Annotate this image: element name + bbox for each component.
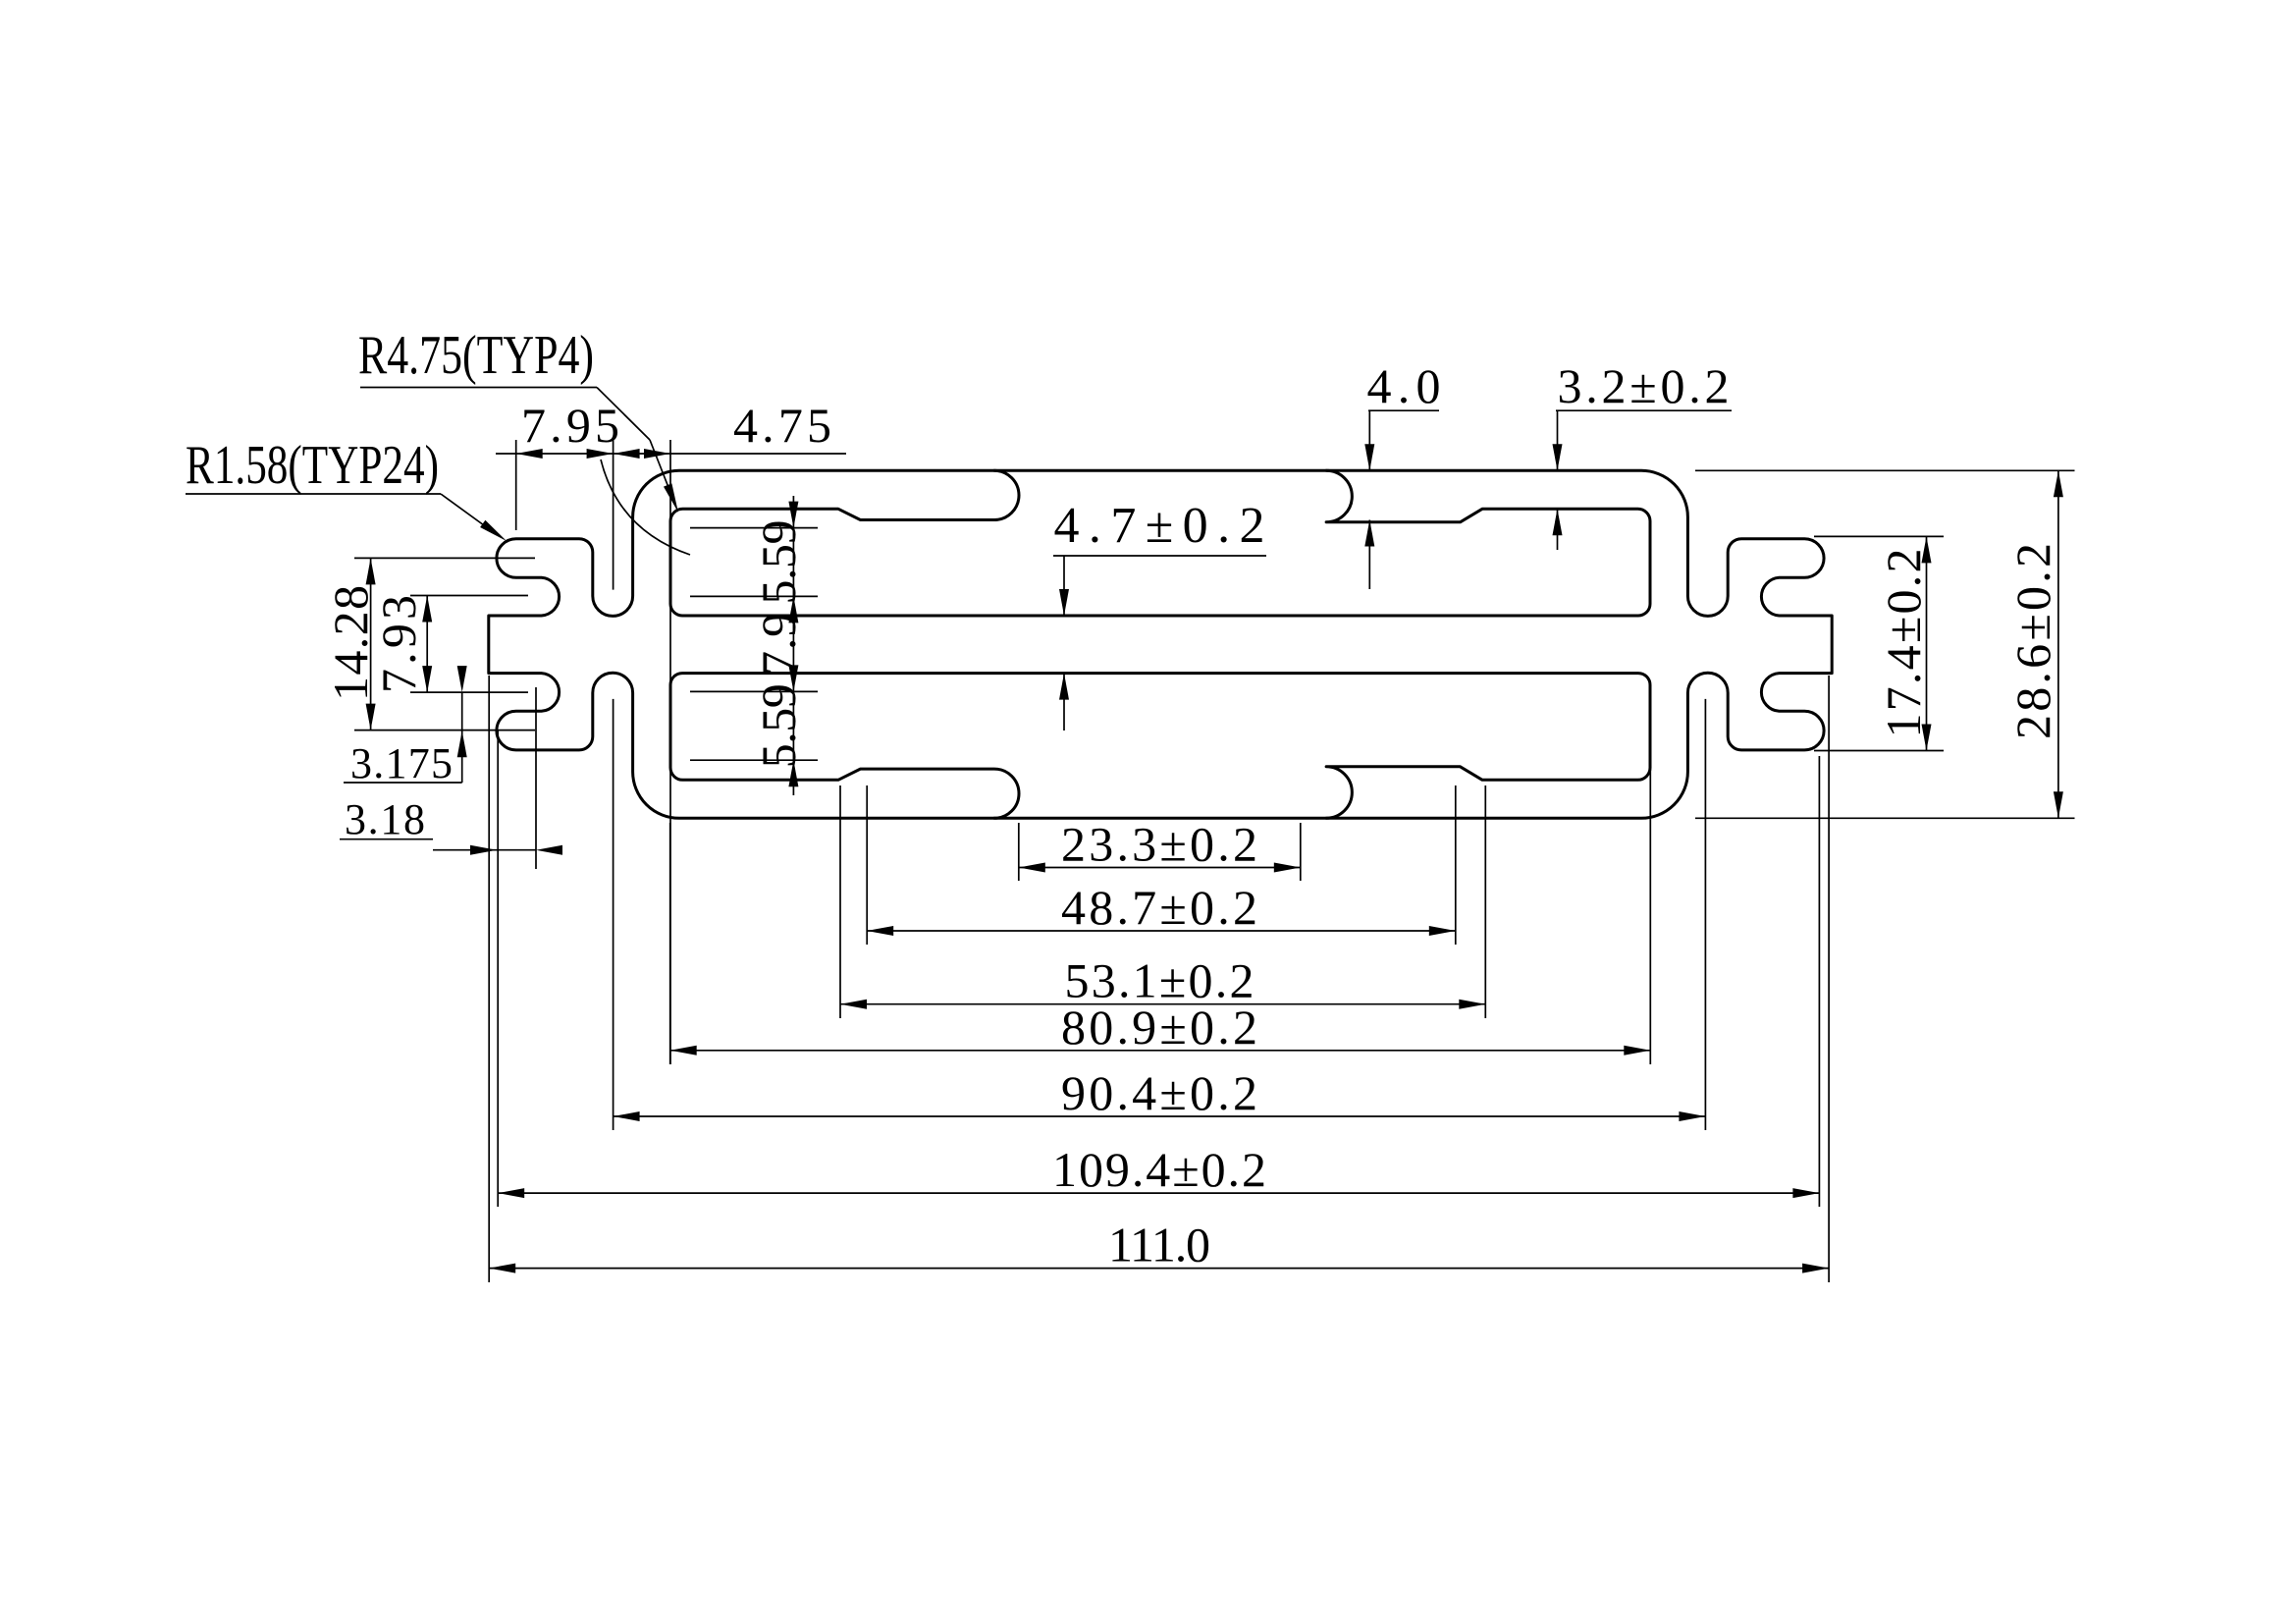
svg-text:3.175: 3.175 xyxy=(350,739,453,787)
svg-text:28.6±0.2: 28.6±0.2 xyxy=(2005,543,2060,739)
svg-text:17.4±0.2: 17.4±0.2 xyxy=(1876,549,1931,738)
svg-text:7.9: 7.9 xyxy=(751,613,806,676)
svg-text:48.7±0.2: 48.7±0.2 xyxy=(1061,880,1257,935)
svg-text:R1.58(TYP24): R1.58(TYP24) xyxy=(186,435,439,496)
svg-text:5.59: 5.59 xyxy=(751,520,806,605)
svg-text:4.0: 4.0 xyxy=(1367,358,1441,413)
svg-text:5.59: 5.59 xyxy=(751,683,806,768)
svg-text:80.9±0.2: 80.9±0.2 xyxy=(1061,1000,1257,1055)
svg-text:14.28: 14.28 xyxy=(323,585,378,701)
svg-text:3.18: 3.18 xyxy=(345,795,425,843)
svg-text:4.75: 4.75 xyxy=(733,398,831,453)
svg-text:7.93: 7.93 xyxy=(371,595,426,693)
svg-text:109.4±0.2: 109.4±0.2 xyxy=(1052,1142,1266,1197)
svg-text:23.3±0.2: 23.3±0.2 xyxy=(1061,816,1257,871)
svg-text:90.4±0.2: 90.4±0.2 xyxy=(1061,1065,1257,1120)
svg-text:R4.75(TYP4): R4.75(TYP4) xyxy=(358,325,594,386)
svg-text:111.0: 111.0 xyxy=(1108,1218,1210,1272)
svg-text:7.95: 7.95 xyxy=(521,398,619,453)
